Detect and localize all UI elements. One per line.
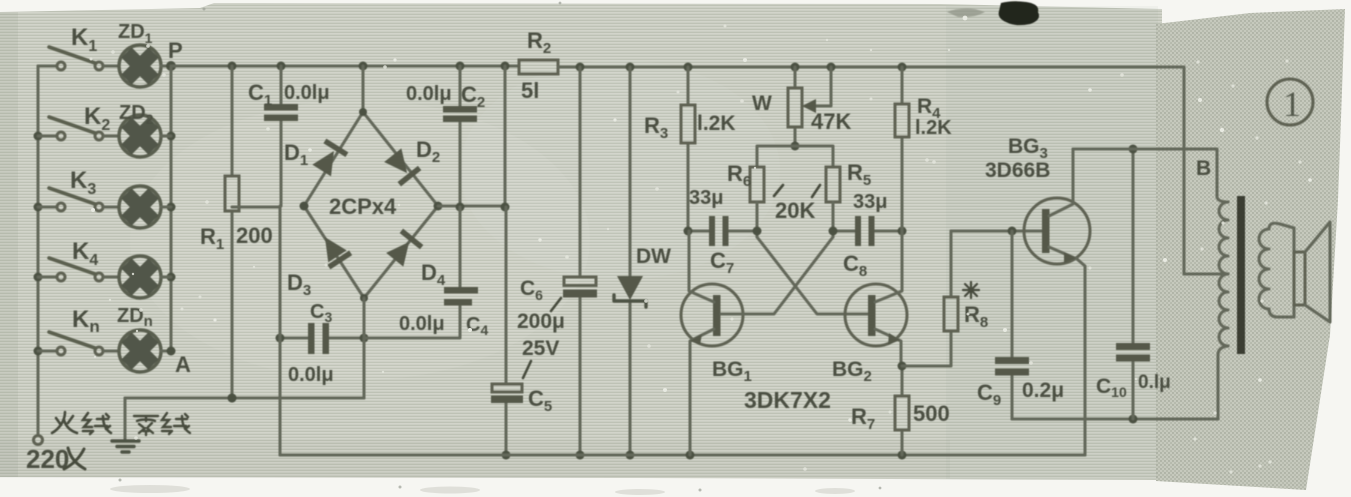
wire cross coupling R5 to BG1 base [744,237,833,314]
resistor R6 20K [727,161,764,237]
svg-text:l.2K: l.2K [915,117,952,139]
lamp ZD3 [119,186,171,228]
label 零线 (neutral wire) [134,413,190,435]
node P [166,38,183,71]
resistor R5 20K [826,160,871,237]
wire R1 to bridge left vertex [232,206,280,209]
capacitor C9 0.2u [977,231,1064,419]
paper speckles [91,16,1312,422]
wire bridge bottom to neutral [363,298,366,398]
resistor R2 51 [519,28,558,103]
diode D4 [385,229,424,268]
svg-text:500: 500 [913,401,950,426]
wire bridge right output [438,66,510,212]
svg-text:5l: 5l [521,78,539,103]
wire return line C9 C10 to transformer [1012,415,1218,424]
diode D3 [314,230,352,269]
svg-text:200μ: 200μ [517,310,565,333]
scan artifact streak [947,8,985,17]
wire bottom rail [280,451,1085,460]
circled figure 1 [1267,79,1313,125]
svg-text:P: P [168,38,183,63]
label 20K with leaders [774,185,820,223]
svg-text:W: W [752,92,772,115]
svg-text:200: 200 [236,223,273,248]
capacitor C8 33u [829,191,907,280]
label 220V mains [26,444,85,474]
transistor BG3 3D66B [985,135,1090,455]
wire neutral line 零线 [125,394,364,403]
svg-text:2CPx4: 2CPx4 [329,194,397,219]
wire supply tap to primary [1184,273,1228,276]
svg-text:0.0lμ: 0.0lμ [406,83,452,105]
svg-text:1: 1 [1283,84,1301,124]
svg-text:3DK7X2: 3DK7X2 [744,387,831,413]
ground (neutral earth) [112,398,139,452]
svg-text:3D66B: 3D66B [985,159,1050,182]
svg-text:33μ: 33μ [689,187,723,209]
capacitor C4 0.01u [364,207,488,338]
asterisk mark above R8 [963,282,979,298]
svg-text:B: B [1196,157,1211,180]
svg-text:l.2K: l.2K [697,112,736,135]
transformer core [1237,196,1245,354]
switch K2 [38,103,119,140]
svg-text:47K: 47K [811,109,851,134]
switch K4 [38,238,119,281]
lamp ZD4 [119,256,171,298]
lamp ZD1 [118,21,171,87]
wire P rail top [171,62,519,71]
lamp ZD2 [119,102,171,157]
wire DC minus left vertical [279,206,282,455]
capacitor C7 33u [684,187,762,277]
resistor R4 1.2K [895,67,952,231]
wire live bus (火线) left vertical [34,66,43,435]
zener diode DW [614,67,671,460]
label 火线 (live wire) [52,412,111,434]
transistor BG2 [832,231,907,385]
resistor R7 500 [851,362,950,456]
switch Kn [38,306,119,355]
speaker [1294,222,1330,322]
svg-text:33μ: 33μ [853,191,887,213]
svg-text:20K: 20K [775,198,815,223]
capacitor C3 0.01u [276,301,369,386]
svg-text:0.0lμ: 0.0lμ [399,313,445,335]
transistor BG1 [681,231,752,455]
wire cross coupling R6 to BG2 base [757,237,871,314]
wire BG3 collector to transformer primary top [1073,149,1217,197]
node A [167,347,192,378]
switch K3 [38,167,119,211]
transformer B primary winding [1217,197,1228,419]
wire BG2 collector node to BG3 base [951,227,1045,236]
transformer B secondary winding [1259,223,1294,317]
wire lamp bus P to A [167,66,176,351]
wire R6 R5 top link [757,146,833,167]
switch K1 [38,24,119,70]
lamp ZDn [117,305,171,372]
capacitor C10 0.1u [1096,145,1171,420]
resistor R3 1.2K [644,67,736,231]
svg-text:DW: DW [636,245,671,268]
capacitor C1 0.01u [248,66,330,206]
svg-text:0.2μ: 0.2μ [1022,379,1064,402]
diode D2 [383,147,422,186]
svg-text:0.0lμ: 0.0lμ [284,82,330,104]
wire DC plus rail [558,63,1184,275]
terminal live wire 220V [34,436,43,445]
resistor R1 200 [200,66,273,403]
bridge rectifier 2CPx4 edges [300,66,443,302]
svg-text:0.lμ: 0.lμ [1138,372,1171,393]
capacitor C5 electrolytic [491,207,552,460]
diode D1 [311,139,349,178]
resistor R8 [902,231,988,366]
svg-text:25V: 25V [522,337,559,360]
scan artifact ink blob [999,1,1039,25]
potentiometer W 47K [752,67,851,151]
svg-text:0.0lμ: 0.0lμ [288,364,334,386]
capacitor C6 electrolytic 200u 25V [517,67,597,460]
svg-text:A: A [175,352,191,377]
capacitor C2 0.01u [406,66,485,207]
